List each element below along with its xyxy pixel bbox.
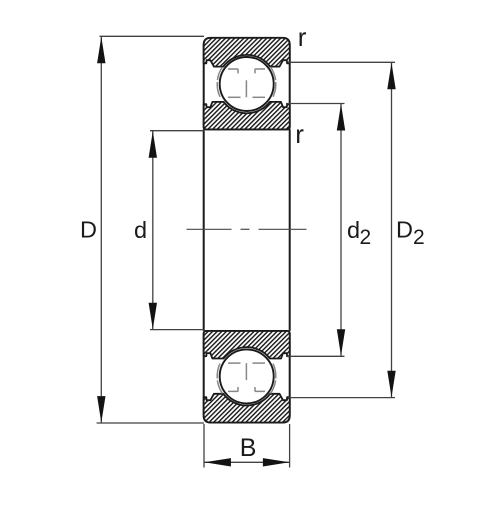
svg-text:2: 2 (413, 226, 425, 249)
svg-text:D: D (396, 217, 413, 243)
inner ring (bottom, hatched) (204, 331, 290, 359)
ball (220, 57, 274, 111)
dimension D (outer diameter) (97, 36, 204, 423)
outer ring (hatched) (204, 38, 290, 67)
inner ring (hatched) (204, 102, 290, 129)
dimension d (bore diameter) (150, 131, 204, 330)
bottom bearing section (204, 331, 290, 423)
top bearing section (204, 38, 290, 129)
dimension B (width) (204, 424, 290, 468)
svg-text:B: B (240, 434, 257, 462)
svg-text:r: r (298, 22, 307, 52)
outer ring (bottom, hatched) (204, 394, 290, 423)
svg-text:d: d (134, 217, 147, 243)
svg-text:d: d (347, 217, 360, 243)
section silhouette (204, 38, 290, 129)
bearing axis centerline (187, 228, 307, 230)
svg-text:2: 2 (360, 226, 372, 249)
svg-text:r: r (295, 119, 304, 149)
dimension D2 (outer ring shoulder diameter) (288, 62, 395, 397)
cage (gray dashed) (217, 67, 276, 97)
dimension d2 (inner ring shoulder diameter) (286, 104, 345, 357)
bearing side face lines (204, 129, 290, 330)
cage (bottom, gray dashed) (217, 363, 276, 393)
ball (bottom) (220, 349, 274, 403)
section silhouette (bottom) (204, 331, 290, 423)
svg-text:D: D (80, 217, 97, 243)
